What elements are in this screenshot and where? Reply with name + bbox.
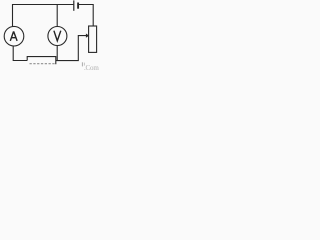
svg-text:.Com: .Com — [84, 64, 99, 71]
